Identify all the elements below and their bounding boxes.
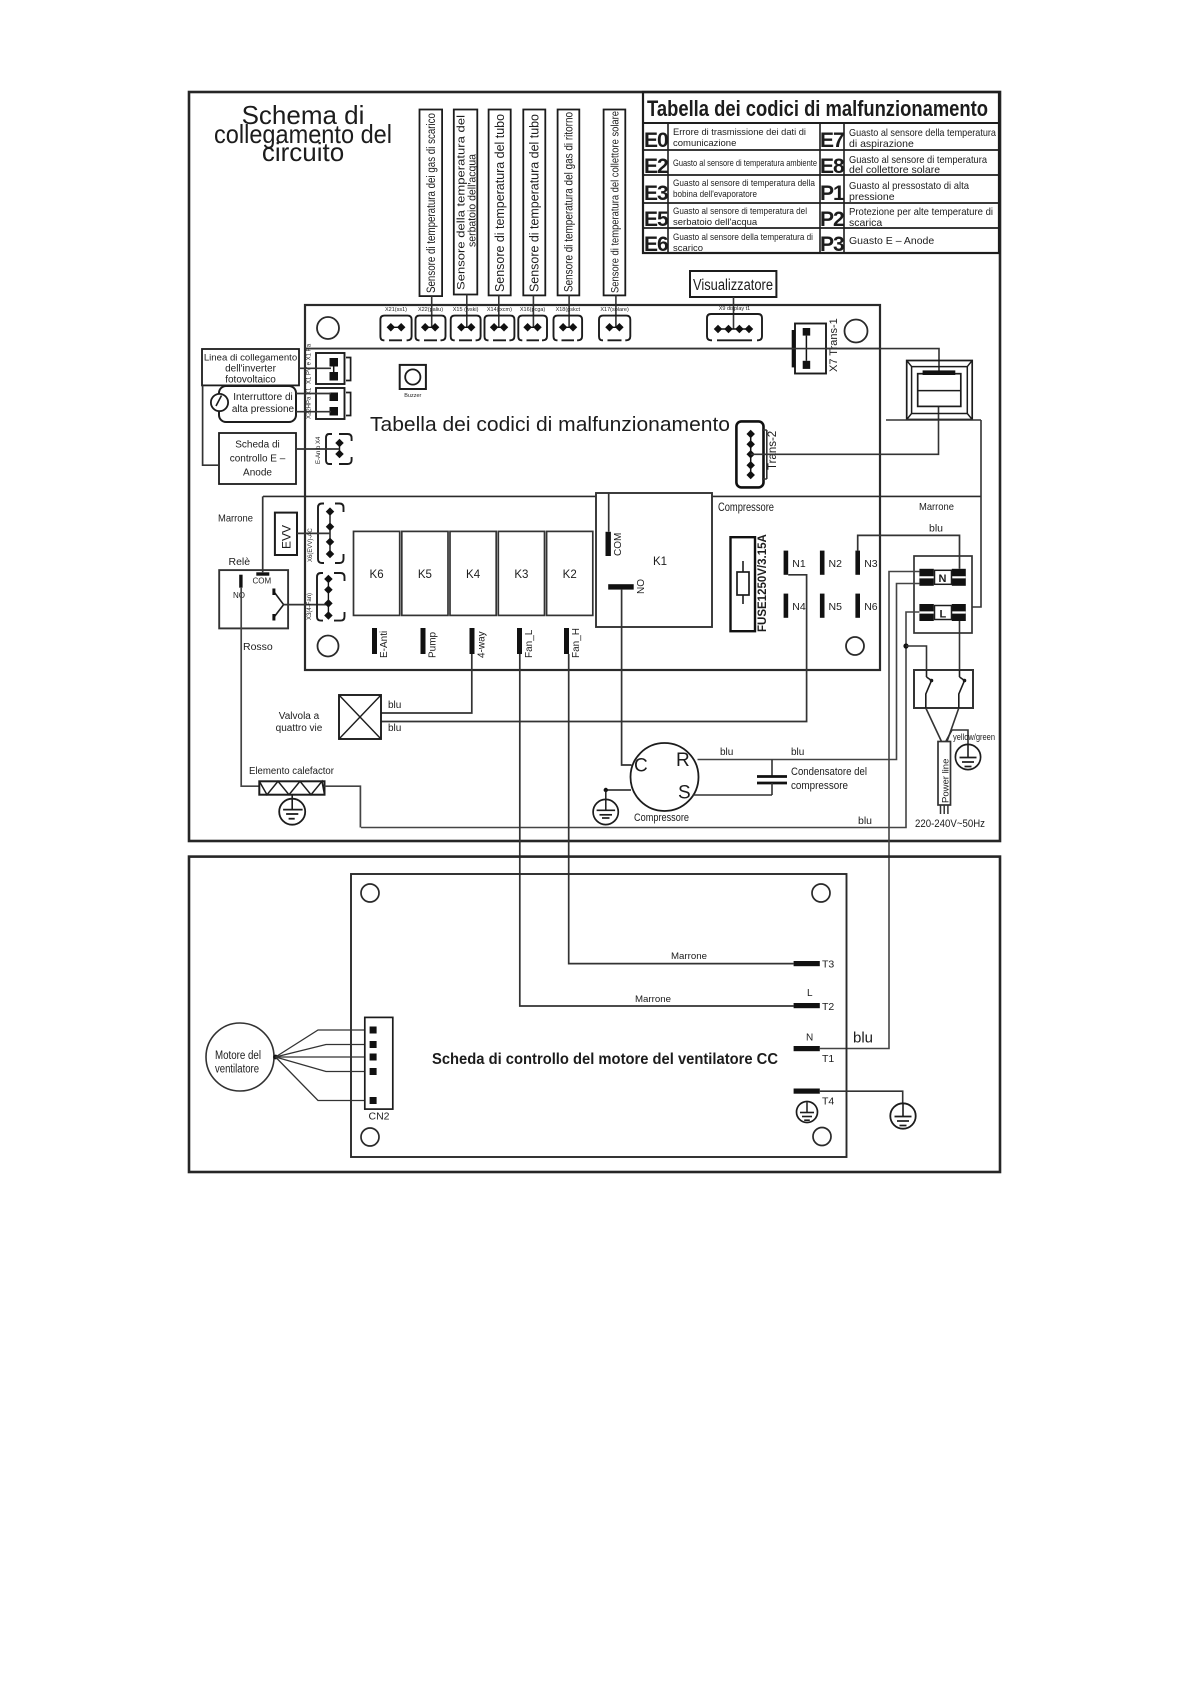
svg-text:Elemento calefactor: Elemento calefactor xyxy=(249,765,334,777)
svg-text:fotovoltaico: fotovoltaico xyxy=(225,375,276,386)
svg-text:Pump: Pump xyxy=(428,631,439,658)
svg-text:blu: blu xyxy=(853,1030,873,1047)
svg-text:dell'inverter: dell'inverter xyxy=(225,364,276,375)
ground symbol power xyxy=(955,744,980,769)
transformer T1 xyxy=(907,361,973,420)
svg-text:Sensore di temperatura dei gas: Sensore di temperatura dei gas di scaric… xyxy=(424,113,438,293)
svg-text:R: R xyxy=(676,750,690,771)
wire junction to left switch xyxy=(906,646,927,670)
connector X24 (sensor input 4) xyxy=(485,307,515,340)
ground symbol external right xyxy=(890,1103,915,1128)
terminal N3 xyxy=(855,551,877,575)
connector X23 (sensor input 3) xyxy=(451,307,481,340)
fuse F1 xyxy=(731,534,770,632)
svg-text:Sensore di temperatura del tub: Sensore di temperatura del tubo xyxy=(492,114,507,292)
svg-text:E6: E6 xyxy=(644,233,668,256)
outer frame upper section xyxy=(189,92,1000,841)
terminal E-Anti xyxy=(372,628,390,658)
svg-text:N1: N1 xyxy=(792,558,806,570)
four-way valve xyxy=(339,695,381,739)
svg-text:COM: COM xyxy=(613,533,624,556)
svg-text:X9 display t1: X9 display t1 xyxy=(719,306,751,312)
wire sensor1 to connector xyxy=(431,296,433,328)
terminal T3 xyxy=(794,959,835,971)
svg-text:N: N xyxy=(939,573,947,585)
wire T4 to earth right xyxy=(820,1091,903,1103)
svg-text:Anode: Anode xyxy=(243,468,272,479)
compressor motor xyxy=(631,743,699,811)
terminal T1 xyxy=(794,1046,835,1065)
svg-text:serbatoio dell'acqua: serbatoio dell'acqua xyxy=(673,217,758,228)
connector X25 (sensor input 5) xyxy=(518,307,547,340)
terminal Fan_L xyxy=(517,628,535,658)
terminal N xyxy=(919,569,965,586)
svg-text:220-240V~50Hz: 220-240V~50Hz xyxy=(915,818,985,830)
wire sensor5 to connector xyxy=(568,295,570,328)
terminal L xyxy=(919,604,965,621)
svg-text:EVV: EVV xyxy=(280,525,294,549)
relay K3 xyxy=(498,531,544,615)
svg-text:Guasto al sensore di temperatu: Guasto al sensore di temperatura della xyxy=(673,178,816,189)
svg-text:L: L xyxy=(807,988,813,999)
mounting hole top-right xyxy=(845,320,868,343)
K1 NO bar xyxy=(608,584,634,589)
svg-text:4-way: 4-way xyxy=(477,631,488,658)
svg-text:S: S xyxy=(678,783,691,804)
terminal N5 xyxy=(820,594,842,618)
svg-text:X1 PV e X1 Pa: X1 PV e X1 Pa xyxy=(307,343,313,384)
svg-text:Power line: Power line xyxy=(941,759,952,803)
wire trans-1 row to transformer xyxy=(305,349,939,371)
power line cord xyxy=(938,742,952,815)
svg-text:Fan_L: Fan_L xyxy=(524,629,535,658)
svg-text:N5: N5 xyxy=(829,601,843,613)
label Valvola a quattro vie xyxy=(276,711,323,734)
svg-text:K5: K5 xyxy=(418,569,432,581)
svg-text:Sensore di temperatura del tub: Sensore di temperatura del tubo xyxy=(527,114,542,292)
svg-text:Guasto E – Anode: Guasto E – Anode xyxy=(849,235,934,247)
terminal N1 xyxy=(784,551,806,575)
svg-text:Marrone: Marrone xyxy=(671,951,707,962)
svg-text:NO: NO xyxy=(233,591,245,600)
svg-text:Rosso: Rosso xyxy=(243,641,273,653)
svg-text:K6: K6 xyxy=(370,569,384,581)
wire relay contact to X3 connector xyxy=(284,604,329,606)
desc P2 xyxy=(849,206,993,229)
svg-text:T4: T4 xyxy=(822,1096,834,1108)
wire L right bottom to right switch xyxy=(959,621,961,670)
relay K6 xyxy=(354,531,400,615)
svg-text:Condensatore del: Condensatore del xyxy=(791,766,867,778)
connector CN2 xyxy=(365,1017,393,1122)
board hole top-right xyxy=(812,884,830,902)
wire scheda to X4 xyxy=(296,448,340,450)
relay box xyxy=(219,570,288,628)
connector X21 (sensor input 1, unused) xyxy=(380,307,411,340)
sensor label box 1: gas di scarico xyxy=(420,110,443,297)
terminal 4-way xyxy=(470,628,488,658)
svg-text:Trans-2: Trans-2 xyxy=(767,431,779,470)
Visualizzatore box xyxy=(690,271,776,297)
svg-text:Visualizzatore: Visualizzatore xyxy=(693,277,773,294)
terminal N6 xyxy=(855,594,877,618)
svg-text:T1: T1 xyxy=(822,1053,834,1065)
desc E7 xyxy=(849,127,996,150)
svg-text:X16(pcga): X16(pcga) xyxy=(520,307,546,313)
wire 4-way to valve xyxy=(381,654,472,713)
board hole bottom-right xyxy=(813,1128,831,1146)
svg-text:Marrone: Marrone xyxy=(635,994,671,1005)
wire EVV to X6 xyxy=(297,532,330,534)
svg-text:P1: P1 xyxy=(820,182,845,205)
wire sensor6 to connector xyxy=(615,295,617,328)
wires switch box to power line xyxy=(926,708,959,742)
svg-text:Scheda di: Scheda di xyxy=(235,440,279,451)
svg-text:NO: NO xyxy=(636,579,647,594)
box Linea di collegamento dell'inverter fotovoltaico xyxy=(202,349,299,386)
desc E5 xyxy=(673,206,807,228)
svg-text:E5: E5 xyxy=(644,208,669,231)
svg-text:E0: E0 xyxy=(644,129,668,152)
svg-text:Fan_H: Fan_H xyxy=(571,628,582,658)
board internal line lower / live rail xyxy=(263,495,981,497)
svg-text:del collettore solare: del collettore solare xyxy=(849,164,940,176)
svg-text:E3: E3 xyxy=(644,182,668,205)
wire L left to heater line xyxy=(361,612,919,828)
svg-text:ventilatore: ventilatore xyxy=(215,1064,259,1076)
svg-text:E-An b X4: E-An b X4 xyxy=(316,436,322,464)
motor wires to CN2 xyxy=(273,1030,369,1101)
outer frame lower section xyxy=(189,857,1000,1172)
svg-text:Marrone: Marrone xyxy=(218,513,253,525)
desc E0 xyxy=(673,127,806,149)
connector X27 (sensor input 7) xyxy=(599,307,630,340)
svg-text:X21(ss1): X21(ss1) xyxy=(385,307,407,313)
svg-text:Relè: Relè xyxy=(229,556,251,568)
K1 COM wire to top xyxy=(608,493,610,532)
wire sensor3 to connector xyxy=(498,295,500,328)
svg-text:Buzzer: Buzzer xyxy=(404,393,421,399)
svg-text:X22(paliu): X22(paliu) xyxy=(418,307,443,313)
svg-text:scarico: scarico xyxy=(673,243,703,254)
wire live drop to L terminal xyxy=(972,420,981,607)
capacitor compressore xyxy=(757,760,787,796)
svg-text:P2: P2 xyxy=(820,208,844,231)
svg-text:blu: blu xyxy=(720,747,733,758)
earth wire yellow/green xyxy=(946,730,968,745)
wire rosso: relay NO down to heater xyxy=(241,588,259,787)
svg-text:alta pressione: alta pressione xyxy=(232,404,295,415)
label Condensatore del compressore xyxy=(791,766,867,792)
wire transformer bottom rail xyxy=(886,419,981,421)
svg-text:X14(txcm): X14(txcm) xyxy=(487,307,512,313)
connector X2-HP (pressure switch) xyxy=(307,387,351,419)
terminal N2 xyxy=(820,551,842,575)
svg-text:X7 Trans-1: X7 Trans-1 xyxy=(828,318,840,372)
board hole bottom-left xyxy=(361,1128,379,1146)
svg-text:N2: N2 xyxy=(829,558,843,570)
fan motor control board xyxy=(351,874,847,1157)
connector X7 Trans-1 xyxy=(792,318,840,373)
title Schema di collegamento del circuito xyxy=(214,100,392,167)
svg-text:quattro vie: quattro vie xyxy=(276,723,323,734)
EVV box xyxy=(275,513,297,555)
svg-text:N: N xyxy=(806,1033,813,1044)
wire trans-2 to transformer bottom xyxy=(751,406,939,454)
terminal N4 xyxy=(784,594,806,618)
terminal T4 xyxy=(794,1089,835,1108)
svg-text:Sensore di temperatura del col: Sensore di temperatura del collettore so… xyxy=(610,111,622,293)
wire compressor S to capacitor xyxy=(693,794,772,796)
board internal line upper xyxy=(305,348,880,350)
svg-text:yellow/green: yellow/green xyxy=(953,732,995,743)
connector X1-PV (inverter) xyxy=(307,343,351,384)
relay COM bar xyxy=(256,572,269,575)
svg-text:X18(gskct: X18(gskct xyxy=(556,307,581,313)
fault code table frame xyxy=(643,92,999,253)
svg-text:N3: N3 xyxy=(864,558,878,570)
svg-text:Guasto al sensore di temperatu: Guasto al sensore di temperatura del xyxy=(673,206,807,217)
sensor label box 4: tubo xyxy=(523,110,545,296)
K1 COM bar xyxy=(606,532,611,556)
svg-text:blu: blu xyxy=(388,700,401,711)
board hole top-left xyxy=(361,884,379,902)
wires interruttore to X2-HP xyxy=(296,393,331,395)
wire N top-left to lower board (blu) xyxy=(820,572,920,1049)
svg-text:N4: N4 xyxy=(792,601,806,613)
svg-text:Tabella dei codici di malfunzi: Tabella dei codici di malfunzionamento xyxy=(647,96,988,121)
box Scheda di controllo E-Anode xyxy=(219,433,296,484)
svg-text:Compressore: Compressore xyxy=(718,502,774,514)
main control board xyxy=(305,305,880,670)
junction node on L drop xyxy=(903,643,908,648)
mounting hole top-left xyxy=(317,317,339,339)
svg-text:Motore del: Motore del xyxy=(215,1050,261,1062)
terminal Pump xyxy=(421,628,439,658)
wire heater right to L drop xyxy=(325,786,361,827)
svg-text:E-Anti: E-Anti xyxy=(379,631,390,658)
sensor label box 6: collettore solare xyxy=(604,110,626,296)
wire N3 up to blu line into N terminal xyxy=(858,535,960,568)
buzzer box xyxy=(400,365,426,399)
svg-text:CN2: CN2 xyxy=(368,1111,389,1123)
desc E6 xyxy=(673,232,813,254)
mounting hole bottom-right xyxy=(846,637,864,655)
svg-text:compressore: compressore xyxy=(791,780,848,792)
svg-text:serbatoio dell'acqua: serbatoio dell'acqua xyxy=(466,154,478,247)
relay contact symbol xyxy=(274,589,284,621)
svg-text:E7: E7 xyxy=(820,129,844,152)
wire sensor4 to connector xyxy=(532,295,534,328)
connector X9 display (4 pin) xyxy=(707,306,762,340)
relay K5 xyxy=(402,531,448,615)
connector X22 (sensor input 2) xyxy=(416,307,446,340)
svg-text:X22HPa X1: X22HPa X1 xyxy=(307,387,313,419)
svg-text:Errore di trasmissione dei dat: Errore di trasmissione dei dati di xyxy=(673,127,806,138)
pressure switch circle symbol xyxy=(211,394,228,411)
svg-text:X3(4-Fan): X3(4-Fan) xyxy=(307,593,313,620)
wire sensor2 to connector xyxy=(466,295,468,329)
svg-text:pressione: pressione xyxy=(849,191,895,203)
wire N bottom-left to compressor R xyxy=(698,584,920,760)
desc E3 xyxy=(673,178,816,200)
wire linea box to scheda box xyxy=(203,385,219,465)
wire Fan_H down to lower board T3 xyxy=(569,654,794,964)
svg-text:K2: K2 xyxy=(563,569,577,581)
desc E8 xyxy=(849,154,987,176)
box Interruttore di alta pressione xyxy=(219,386,296,422)
svg-text:Interruttore di: Interruttore di xyxy=(233,392,292,403)
wire K1 NO to compressor C xyxy=(622,590,632,765)
svg-text:Guasto al sensore della temper: Guasto al sensore della temperatura di xyxy=(673,232,813,243)
svg-text:Marrone: Marrone xyxy=(919,501,954,513)
svg-text:K3: K3 xyxy=(514,569,528,581)
wire linea box to X1-PV xyxy=(299,367,331,369)
ground symbol compressor xyxy=(593,788,631,825)
svg-text:COM: COM xyxy=(253,577,272,586)
sensor label box 2: serbatoio dell'acqua xyxy=(454,110,479,295)
svg-text:FUSE1250V/3.15A: FUSE1250V/3.15A xyxy=(757,534,769,632)
svg-text:E8: E8 xyxy=(820,155,845,178)
svg-text:comunicazione: comunicazione xyxy=(673,138,736,149)
svg-text:T3: T3 xyxy=(822,959,834,971)
svg-text:blu: blu xyxy=(929,523,943,535)
relay K2 xyxy=(547,531,593,615)
svg-text:di aspirazione: di aspirazione xyxy=(849,138,914,150)
connector X6 EVV xyxy=(308,504,344,564)
relay NO bar xyxy=(239,575,242,588)
svg-text:Valvola a: Valvola a xyxy=(279,711,320,722)
connector X3 relay xyxy=(307,573,345,621)
relay K1 box xyxy=(596,493,712,627)
connector X26 (sensor input 6) xyxy=(554,307,583,340)
terminal T2 xyxy=(794,1001,835,1013)
svg-text:Compressore: Compressore xyxy=(634,812,689,824)
wire marrone: relay COM up to live rail xyxy=(262,496,264,572)
motor circle xyxy=(206,1023,274,1091)
connector Trans-2 xyxy=(736,421,779,487)
svg-text:bobina dell'evaporatore: bobina dell'evaporatore xyxy=(673,189,757,200)
svg-text:N6: N6 xyxy=(864,601,878,613)
svg-text:Tabella dei codici di malfunzi: Tabella dei codici di malfunzionamento xyxy=(370,414,730,436)
ground symbol heater xyxy=(279,795,305,825)
svg-text:E2: E2 xyxy=(644,155,668,178)
desc P1 xyxy=(849,180,969,203)
svg-text:blu: blu xyxy=(858,815,872,827)
svg-text:X15 (wski): X15 (wski) xyxy=(453,307,479,313)
sensor label box 3: tubo xyxy=(489,110,511,296)
svg-text:scarica: scarica xyxy=(849,217,882,229)
interlock switch box xyxy=(914,670,973,708)
wire N1 to valve (via right drop) xyxy=(381,575,807,722)
svg-text:Scheda di controllo del motore: Scheda di controllo del motore del venti… xyxy=(432,1051,778,1068)
svg-text:blu: blu xyxy=(388,723,401,734)
sensor label box 5: gas di ritorno xyxy=(558,110,580,296)
ground symbol T4 board xyxy=(797,1102,818,1123)
svg-text:L: L xyxy=(940,609,947,621)
terminal Fan_H xyxy=(564,628,582,658)
svg-text:Linea di collegamento: Linea di collegamento xyxy=(204,353,297,364)
svg-text:K4: K4 xyxy=(466,569,481,581)
svg-text:T2: T2 xyxy=(822,1001,834,1013)
N-L terminal block box xyxy=(914,556,972,633)
heater element xyxy=(259,781,324,794)
svg-text:P3: P3 xyxy=(820,233,844,256)
svg-text:circuito: circuito xyxy=(262,137,344,167)
connector X4 E-Anode xyxy=(316,434,352,464)
svg-text:Guasto al sensore di temperatu: Guasto al sensore di temperatura ambient… xyxy=(673,158,817,169)
svg-text:K1: K1 xyxy=(653,556,667,568)
wire Fan_L down to lower board T2 xyxy=(520,654,794,1006)
svg-text:C: C xyxy=(634,756,648,777)
svg-text:X17(solare): X17(solare) xyxy=(600,307,629,313)
wire visualizzatore to connector xyxy=(733,297,735,329)
relay K4 xyxy=(450,531,496,615)
mounting hole bottom-left xyxy=(318,636,339,657)
svg-text:controllo E –: controllo E – xyxy=(230,454,286,465)
svg-text:Sensore di temperatura del gas: Sensore di temperatura del gas di ritorn… xyxy=(563,112,576,292)
